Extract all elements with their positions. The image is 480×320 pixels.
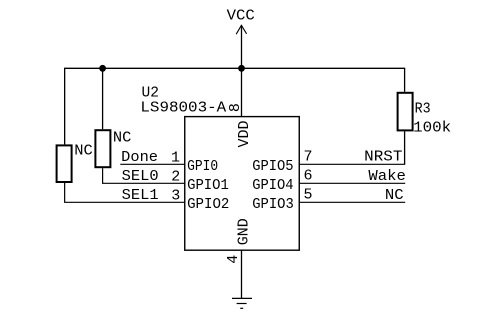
power symbol VCC arrow bbox=[236, 25, 246, 34]
wire pin 6 Wake bbox=[299, 182, 405, 184]
resistor NC (left) body bbox=[57, 145, 72, 182]
resistor NC (second) body bbox=[95, 130, 110, 167]
svg-text:R3: R3 bbox=[415, 100, 431, 117]
svg-text:GPIO5: GPIO5 bbox=[252, 158, 293, 175]
svg-text:SEL1: SEL1 bbox=[122, 187, 159, 204]
svg-text:6: 6 bbox=[304, 168, 313, 185]
svg-text:Done: Done bbox=[121, 149, 158, 166]
svg-text:2: 2 bbox=[171, 168, 180, 185]
resistor R3 body bbox=[398, 93, 413, 131]
svg-text:GPIO4: GPIO4 bbox=[252, 177, 293, 194]
svg-text:GPIO3: GPIO3 bbox=[252, 196, 294, 213]
wire VCC vertical to VDD pin 8 bbox=[241, 25, 243, 116]
wire resistor 1 bottom to SEL1 pin 3 bbox=[65, 183, 185, 202]
svg-text:4: 4 bbox=[225, 255, 242, 264]
svg-text:SEL0: SEL0 bbox=[122, 168, 159, 185]
svg-text:NRST: NRST bbox=[364, 149, 402, 166]
svg-text:Wake: Wake bbox=[368, 168, 406, 185]
svg-text:5: 5 bbox=[304, 187, 313, 204]
svg-text:NC: NC bbox=[113, 129, 131, 146]
svg-text:3: 3 bbox=[171, 187, 180, 204]
wire VCC top rail bbox=[64, 67, 405, 69]
wire left rail to NC resistor 1 bbox=[64, 68, 66, 144]
svg-text:GND: GND bbox=[236, 218, 253, 245]
svg-text:VCC: VCC bbox=[227, 8, 255, 25]
svg-text:VDD: VDD bbox=[236, 121, 253, 148]
IC U2 body bbox=[185, 117, 300, 251]
wire right rail drop to R3 bbox=[404, 68, 406, 92]
svg-text:100k: 100k bbox=[413, 120, 451, 137]
wire R3 bottom to NRST bbox=[404, 131, 406, 164]
ground symbol bbox=[232, 298, 252, 308]
wire Done to pin 1 bbox=[120, 163, 184, 165]
wire pin 5 NC bbox=[299, 201, 405, 203]
svg-text:NC: NC bbox=[385, 187, 404, 204]
wire junction to NC resistor 2 bbox=[102, 68, 104, 129]
junction node at left rail bbox=[99, 65, 106, 72]
svg-text:7: 7 bbox=[304, 149, 313, 166]
junction node at VCC bbox=[238, 65, 245, 72]
svg-text:NC: NC bbox=[74, 143, 93, 160]
wire pin 7 NRST bbox=[299, 163, 405, 165]
svg-text:8: 8 bbox=[227, 103, 244, 112]
wire resistor 2 bottom to SEL0 pin 2 bbox=[103, 168, 185, 183]
svg-text:1: 1 bbox=[171, 150, 180, 167]
svg-text:GPIO2: GPIO2 bbox=[187, 196, 229, 213]
svg-text:GPIO1: GPIO1 bbox=[187, 177, 229, 194]
wire GND pin 4 down bbox=[241, 250, 243, 298]
svg-text:LS98003-A: LS98003-A bbox=[140, 100, 226, 117]
svg-text:GPI0: GPI0 bbox=[187, 158, 218, 175]
